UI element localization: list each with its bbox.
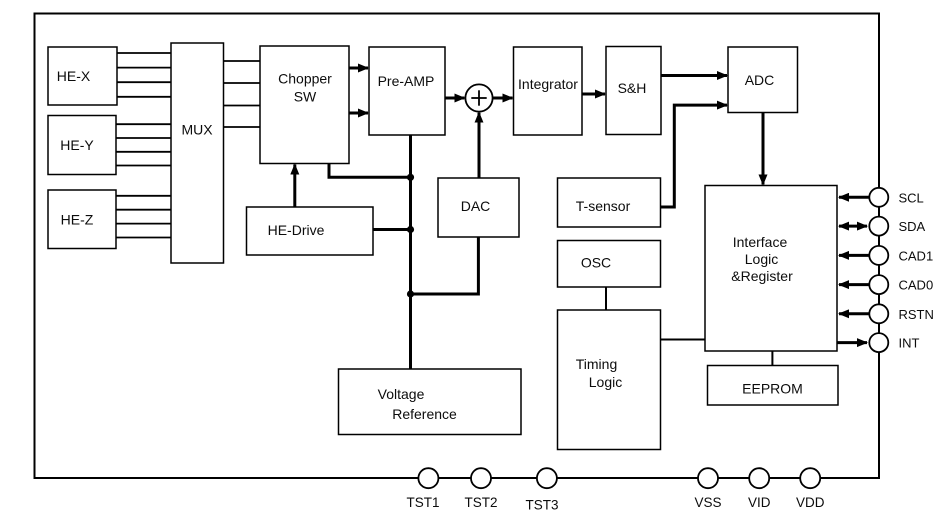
svg-text:MUX: MUX (181, 122, 213, 138)
pin VSS (694, 468, 721, 510)
pin VDD (796, 468, 825, 510)
pin CAD0 (839, 275, 933, 294)
wire Timing Logic to Interface (661, 339, 706, 341)
block HE-Z (48, 190, 116, 249)
svg-text:DAC: DAC (461, 198, 491, 214)
wire ADC to Interface arrow (762, 113, 765, 185)
wire HE-Z to MUX lines (116, 196, 171, 238)
svg-text:S&H: S&H (618, 80, 647, 96)
wire HE-Y to MUX lines (116, 124, 171, 165)
block Interface Logic & Register (705, 186, 837, 352)
pin VID (748, 468, 771, 510)
pin CAD1 (839, 246, 933, 265)
wire Interface to EEPROM (771, 351, 773, 366)
svg-text:RSTN: RSTN (899, 307, 934, 322)
chip border (35, 14, 880, 479)
svg-text:CAD0: CAD0 (899, 278, 934, 293)
wire Chopper to Pre-AMP arrow 2 (349, 112, 368, 115)
svg-text:Pre-AMP: Pre-AMP (378, 73, 435, 89)
pin SCL (839, 188, 924, 207)
wire DAC bottom to bus (411, 237, 479, 294)
pin TST1 (406, 468, 439, 510)
wire T-sensor to ADC arrow (661, 105, 728, 207)
block HE-X (48, 47, 117, 105)
svg-text:Voltage: Voltage (378, 386, 425, 402)
svg-text:HE-Z: HE-Z (61, 212, 94, 228)
pin RSTN (839, 304, 934, 323)
svg-text:ADC: ADC (745, 72, 775, 88)
wire Chopper to Pre-AMP arrow 1 (349, 67, 368, 70)
svg-text:Logic: Logic (745, 251, 778, 267)
junction dot C (407, 290, 414, 297)
pin TST3 (525, 468, 558, 512)
block OSC (558, 241, 661, 288)
wire HE-Drive to Chopper arrow (293, 165, 296, 208)
svg-text:OSC: OSC (581, 255, 611, 271)
svg-text:CAD1: CAD1 (899, 248, 934, 263)
svg-text:TST3: TST3 (525, 498, 558, 513)
svg-text:TST1: TST1 (406, 495, 439, 510)
block Chopper SW (260, 46, 349, 164)
block T-sensor (558, 178, 661, 227)
block EEPROM (708, 366, 839, 406)
svg-text:VSS: VSS (694, 495, 721, 510)
pin INT (837, 333, 920, 352)
block Integrator (514, 47, 583, 135)
svg-text:Reference: Reference (392, 406, 457, 422)
wire HE-X to MUX lines (117, 53, 171, 97)
wire Pre-AMP to summer arrow (445, 97, 464, 100)
junction dot A (407, 174, 414, 181)
wire DAC to summer arrow (478, 113, 481, 178)
svg-text:T-sensor: T-sensor (576, 198, 631, 214)
svg-text:VID: VID (748, 495, 771, 510)
svg-text:EEPROM: EEPROM (742, 381, 803, 397)
block HE-Drive (247, 207, 374, 255)
junction dot B (407, 226, 414, 233)
block ADC (728, 47, 798, 113)
block MUX (171, 43, 224, 263)
pin TST2 (464, 468, 497, 510)
wire Pre-AMP bottom bus vertical (409, 135, 412, 369)
svg-text:Integrator: Integrator (518, 76, 578, 92)
block Voltage Reference (339, 369, 522, 435)
svg-text:VDD: VDD (796, 495, 825, 510)
svg-text:SCL: SCL (899, 190, 924, 205)
wire summer to Integrator arrow (493, 97, 513, 100)
pin SDA (839, 217, 926, 236)
svg-text:Logic: Logic (589, 374, 622, 390)
svg-text:HE-X: HE-X (57, 68, 91, 84)
block Pre-AMP (369, 47, 445, 135)
wire OSC to Timing Logic (605, 287, 607, 310)
svg-text:SDA: SDA (899, 219, 926, 234)
svg-text:Chopper: Chopper (278, 71, 332, 87)
block Timing Logic (558, 310, 661, 450)
svg-text:&Register: &Register (731, 268, 793, 284)
wire S&H to ADC arrow (661, 74, 727, 77)
wire MUX to Chopper lines (224, 61, 261, 127)
summing junction (465, 84, 492, 111)
svg-text:HE-Y: HE-Y (60, 137, 94, 153)
svg-text:HE-Drive: HE-Drive (268, 222, 325, 238)
wire Chopper tap to bus (329, 164, 411, 178)
svg-text:Timing: Timing (576, 356, 618, 372)
svg-text:TST2: TST2 (464, 495, 497, 510)
block HE-Y (48, 116, 116, 175)
block DAC (438, 178, 519, 237)
wire Integrator to S&H arrow (582, 93, 605, 96)
svg-text:Interface: Interface (733, 234, 788, 250)
block S&H (606, 47, 661, 135)
svg-text:SW: SW (294, 89, 317, 105)
svg-text:INT: INT (899, 336, 920, 351)
wire HE-Drive to bus (373, 228, 411, 231)
